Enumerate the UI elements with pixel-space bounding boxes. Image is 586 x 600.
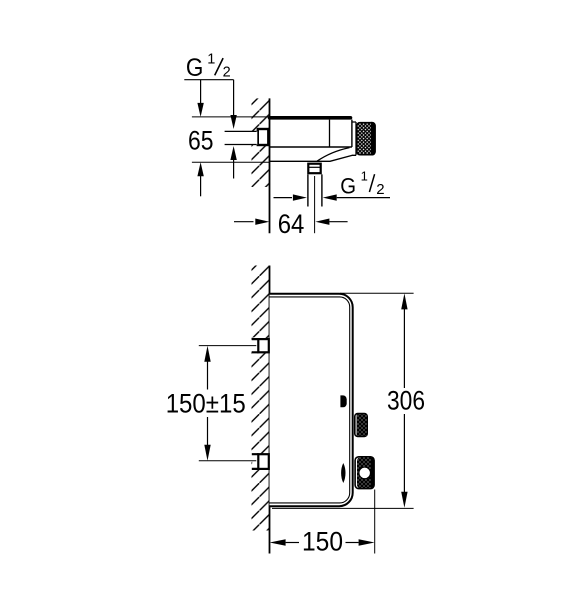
dimension 306: line and arrows: [401, 293, 407, 309]
svg-text:G: G: [340, 174, 356, 199]
knurled knob (temperature handle): [357, 123, 375, 155]
extension line 150±15 top: [199, 345, 256, 347]
temperature button slot (D shape): [340, 395, 346, 407]
leader G1/2 bottom: right segment with arrow: [323, 194, 337, 200]
valve body top bar (thick): [270, 116, 351, 120]
wall hatching top: [252, 98, 270, 187]
label G1/2 bottom: [340, 169, 384, 199]
outlet nut: [308, 164, 320, 174]
leader G1/2 bottom: left segment with arrow: [274, 197, 293, 199]
dimension 150±15: arrows, line, text: [204, 346, 210, 362]
extension line 150±15 bottom: [199, 460, 256, 462]
leader G1/2 top: drop line: [233, 80, 235, 116]
leader G1/2 top: lower counter-arrow: [230, 146, 236, 160]
svg-text:1: 1: [207, 52, 215, 68]
outlet pipe: [308, 174, 322, 206]
svg-text:2: 2: [223, 65, 231, 81]
valve lower chamber curve: [317, 148, 350, 162]
leader G1/2 top: arrow: [230, 115, 236, 129]
dimension 64: left tail and arrow: [234, 221, 254, 223]
product inner profile: [270, 297, 350, 503]
extension line upper (65 dim, top): [192, 116, 270, 118]
wall face line top: [269, 98, 271, 233]
wall union port: [258, 129, 269, 145]
supply tube through wall: [251, 131, 257, 144]
outlet nut inner line: [308, 166, 322, 168]
knob right dark band: [371, 122, 376, 156]
safestop button: [359, 467, 371, 479]
leader G1/2 top: underline: [184, 79, 233, 81]
upper knurled knob (shut-off handle): [355, 414, 367, 437]
upper mounting bracket: [252, 337, 257, 354]
valve body divider: [329, 120, 331, 147]
extension line 150 right (knob face): [374, 490, 376, 554]
svg-text:1: 1: [361, 169, 368, 184]
lower knurled knob (thermostat handle with button): [355, 457, 374, 489]
label G1/2 top: [186, 52, 231, 82]
dimension 64: right arrow and tail: [315, 219, 329, 225]
dimension 65: lower arrow: [197, 162, 203, 176]
extension line 306 top: [340, 292, 414, 294]
dimension 150: left arrow: [270, 539, 286, 545]
wall hatching bottom: [252, 266, 270, 531]
svg-text:2: 2: [376, 181, 384, 198]
outlet pipe centerline: [314, 176, 316, 233]
product outer profile: [270, 294, 353, 507]
wall face line bottom: [269, 266, 271, 554]
valve body outline: [270, 120, 352, 147]
svg-text:150: 150: [302, 527, 343, 557]
svg-text:150±15: 150±15: [166, 388, 246, 418]
svg-text:64: 64: [278, 209, 305, 239]
svg-text:306: 306: [387, 386, 425, 416]
dimension 65: upper arrow: [200, 80, 202, 103]
dimension 150: right arrow: [346, 542, 359, 544]
knob neck: [352, 122, 356, 155]
valve lower chamber: [270, 155, 353, 161]
volume slot lens: [341, 463, 345, 483]
extension line 306 bottom: [272, 507, 414, 509]
svg-text:65: 65: [188, 125, 214, 155]
svg-text:G: G: [186, 55, 204, 82]
lower mounting bracket: [252, 453, 257, 470]
extension line lower (65 dim, bottom): [192, 161, 270, 163]
